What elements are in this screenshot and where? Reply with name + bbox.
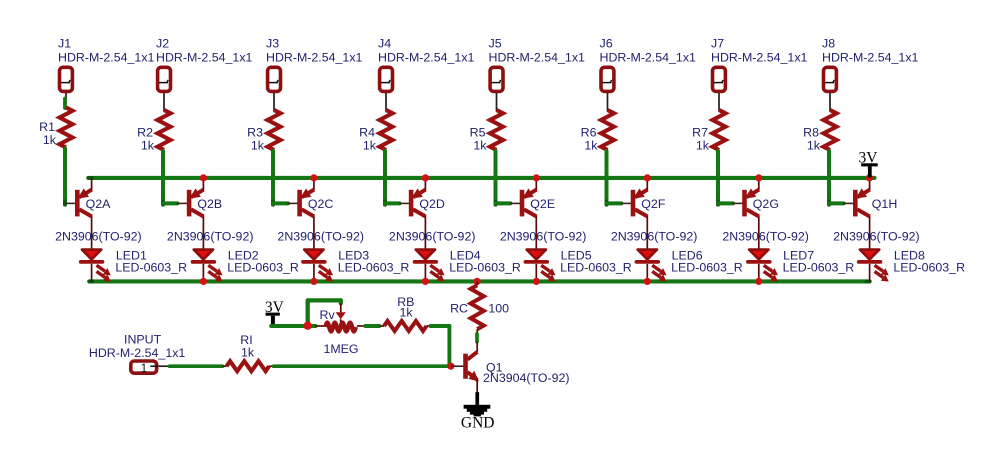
connector J1 <box>58 37 155 92</box>
resistor R5 <box>470 110 503 153</box>
connector J5 <box>489 37 586 92</box>
wire <box>385 93 387 111</box>
junction <box>533 174 540 181</box>
wire <box>385 201 399 205</box>
transistor Q1H <box>833 178 920 249</box>
svg-text:2N3906(TO-92): 2N3906(TO-92) <box>277 230 364 244</box>
svg-text:HDR-M-2.54_1x1: HDR-M-2.54_1x1 <box>378 51 475 65</box>
svg-text:J6: J6 <box>600 37 613 51</box>
svg-text:J8: J8 <box>822 37 835 51</box>
svg-text:Q2A: Q2A <box>86 197 112 211</box>
svg-text:Q2C: Q2C <box>308 197 334 211</box>
svg-text:2N3906(TO-92): 2N3906(TO-92) <box>833 230 920 244</box>
resistor RC <box>450 281 509 332</box>
svg-text:HDR-M-2.54_1x1: HDR-M-2.54_1x1 <box>711 51 808 65</box>
svg-text:Q2G: Q2G <box>753 197 779 211</box>
wire <box>605 151 609 205</box>
transistor Q2A <box>55 178 142 249</box>
svg-text:R7: R7 <box>692 126 708 140</box>
svg-text:R5: R5 <box>470 126 486 140</box>
svg-text:1k: 1k <box>241 346 255 360</box>
svg-text:2N3906(TO-92): 2N3906(TO-92) <box>389 230 476 244</box>
svg-text:HDR-M-2.54_1x1: HDR-M-2.54_1x1 <box>89 346 186 360</box>
connector J2 <box>156 37 253 92</box>
connector INPUT <box>89 332 186 374</box>
svg-text:2N3906(TO-92): 2N3906(TO-92) <box>722 230 809 244</box>
svg-text:Q2E: Q2E <box>530 197 555 211</box>
svg-text:R3: R3 <box>247 126 263 140</box>
svg-text:HDR-M-2.54_1x1: HDR-M-2.54_1x1 <box>156 51 253 65</box>
junction <box>447 363 454 370</box>
connector J7 <box>711 37 808 92</box>
connector J8 <box>822 37 919 92</box>
wire <box>63 149 67 205</box>
wire <box>271 151 275 205</box>
svg-text:R1: R1 <box>39 120 55 134</box>
svg-text:Q2B: Q2B <box>197 197 222 211</box>
resistor R1 <box>39 108 72 148</box>
svg-text:LED-0603_R: LED-0603_R <box>227 261 299 275</box>
wire emitter 3V bus <box>90 176 875 180</box>
junction <box>422 174 429 181</box>
wire <box>170 364 223 368</box>
wire <box>716 151 720 205</box>
junction <box>200 278 207 285</box>
wire <box>607 93 609 111</box>
svg-text:R8: R8 <box>803 126 819 140</box>
svg-text:Q2D: Q2D <box>419 197 445 211</box>
trimmer Rv <box>315 303 365 356</box>
LED LED2 <box>193 248 299 281</box>
wire <box>161 151 165 205</box>
wire <box>274 364 451 368</box>
wire <box>365 324 379 328</box>
power 3V <box>859 150 879 178</box>
svg-text:1k: 1k <box>473 139 487 153</box>
svg-text:Rv: Rv <box>320 308 336 322</box>
wire <box>431 324 450 328</box>
svg-text:2N3906(TO-92): 2N3906(TO-92) <box>500 230 587 244</box>
svg-text:LED-0603_R: LED-0603_R <box>449 261 521 275</box>
svg-text:INPUT: INPUT <box>124 332 162 346</box>
svg-text:2N3906(TO-92): 2N3906(TO-92) <box>167 230 254 244</box>
transistor Q1 <box>451 352 570 392</box>
junction <box>644 278 651 285</box>
resistor R4 <box>359 110 392 153</box>
junction <box>310 174 317 181</box>
wire <box>496 201 511 205</box>
wire <box>271 324 315 328</box>
svg-text:1k: 1k <box>141 139 155 153</box>
svg-text:LED-0603_R: LED-0603_R <box>893 261 965 275</box>
connector J6 <box>600 37 697 92</box>
connector J3 <box>266 37 363 92</box>
svg-text:R2: R2 <box>137 126 153 140</box>
wire <box>383 151 387 205</box>
svg-text:100: 100 <box>488 301 509 315</box>
wire <box>829 93 831 111</box>
junction <box>200 174 207 181</box>
connector J4 <box>378 37 475 92</box>
wire <box>475 334 479 342</box>
svg-text:HDR-M-2.54_1x1: HDR-M-2.54_1x1 <box>489 51 586 65</box>
svg-text:HDR-M-2.54_1x1: HDR-M-2.54_1x1 <box>600 51 697 65</box>
svg-text:1: 1 <box>141 361 148 375</box>
svg-text:1k: 1k <box>363 139 377 153</box>
junction <box>533 278 540 285</box>
svg-text:GND: GND <box>461 414 495 431</box>
wire <box>273 93 275 111</box>
svg-text:LED-0603_R: LED-0603_R <box>560 261 632 275</box>
svg-text:R6: R6 <box>581 126 597 140</box>
resistor R6 <box>581 110 614 153</box>
resistor R7 <box>692 110 725 153</box>
svg-text:HDR-M-2.54_1x1: HDR-M-2.54_1x1 <box>822 51 919 65</box>
svg-text:1k: 1k <box>251 139 265 153</box>
svg-text:1k: 1k <box>696 139 710 153</box>
power 3V <box>265 299 285 327</box>
LED LED7 <box>748 248 854 281</box>
transistor Q2B <box>167 178 254 249</box>
wire <box>163 93 165 111</box>
wire <box>829 201 844 205</box>
svg-text:HDR-M-2.54_1x1: HDR-M-2.54_1x1 <box>58 51 155 65</box>
LED LED5 <box>525 248 631 281</box>
svg-text:J7: J7 <box>711 37 724 51</box>
svg-text:Q2F: Q2F <box>641 197 666 211</box>
svg-text:2N3904(TO-92): 2N3904(TO-92) <box>483 371 570 385</box>
transistor Q2D <box>389 178 476 249</box>
resistor RB <box>380 295 431 331</box>
resistor R8 <box>803 110 836 153</box>
resistor RI <box>222 333 273 371</box>
svg-text:J5: J5 <box>489 37 502 51</box>
LED LED4 <box>415 248 521 281</box>
junction <box>422 278 429 285</box>
wire <box>65 93 67 99</box>
wire <box>607 201 622 205</box>
transistor Q2C <box>277 178 364 249</box>
wire <box>494 151 498 205</box>
svg-text:1k: 1k <box>584 139 598 153</box>
svg-text:J2: J2 <box>156 37 169 51</box>
junction <box>755 174 762 181</box>
svg-text:2N3906(TO-92): 2N3906(TO-92) <box>55 230 142 244</box>
junction <box>755 278 762 285</box>
svg-text:J4: J4 <box>378 37 391 51</box>
ground GND <box>461 392 495 431</box>
wire <box>273 201 288 205</box>
svg-text:R4: R4 <box>359 126 375 140</box>
LED LED8 <box>859 248 965 281</box>
svg-text:LED-0603_R: LED-0603_R <box>783 261 855 275</box>
svg-text:LED-0603_R: LED-0603_R <box>338 261 410 275</box>
resistor R2 <box>137 110 170 153</box>
wire <box>827 151 831 205</box>
junction <box>866 174 873 181</box>
svg-text:J3: J3 <box>266 37 279 51</box>
svg-text:RC: RC <box>450 301 468 315</box>
junction <box>310 278 317 285</box>
junction <box>644 174 651 181</box>
wire <box>163 201 177 205</box>
svg-text:HDR-M-2.54_1x1: HDR-M-2.54_1x1 <box>266 51 363 65</box>
svg-text:LED-0603_R: LED-0603_R <box>671 261 743 275</box>
wire wiper loop <box>306 300 310 326</box>
resistor R3 <box>247 110 280 153</box>
svg-text:Q1H: Q1H <box>872 197 897 211</box>
LED LED3 <box>303 248 409 281</box>
svg-text:1MEG: 1MEG <box>323 342 358 356</box>
svg-text:LED-0603_R: LED-0603_R <box>115 261 187 275</box>
LED LED1 <box>81 248 187 281</box>
wire <box>496 93 498 111</box>
wire <box>718 93 720 111</box>
svg-text:J1: J1 <box>58 37 71 51</box>
transistor Q2G <box>722 178 809 249</box>
junction <box>304 322 312 330</box>
svg-text:2N3906(TO-92): 2N3906(TO-92) <box>611 230 698 244</box>
junction <box>474 278 481 285</box>
wire <box>718 201 733 205</box>
svg-text:1k: 1k <box>399 305 413 319</box>
transistor Q2E <box>500 178 587 249</box>
svg-text:1k: 1k <box>807 139 821 153</box>
wire LED cathode bus <box>89 279 869 283</box>
svg-text:1k: 1k <box>43 133 57 147</box>
LED LED6 <box>636 248 742 281</box>
transistor Q2F <box>611 178 698 249</box>
